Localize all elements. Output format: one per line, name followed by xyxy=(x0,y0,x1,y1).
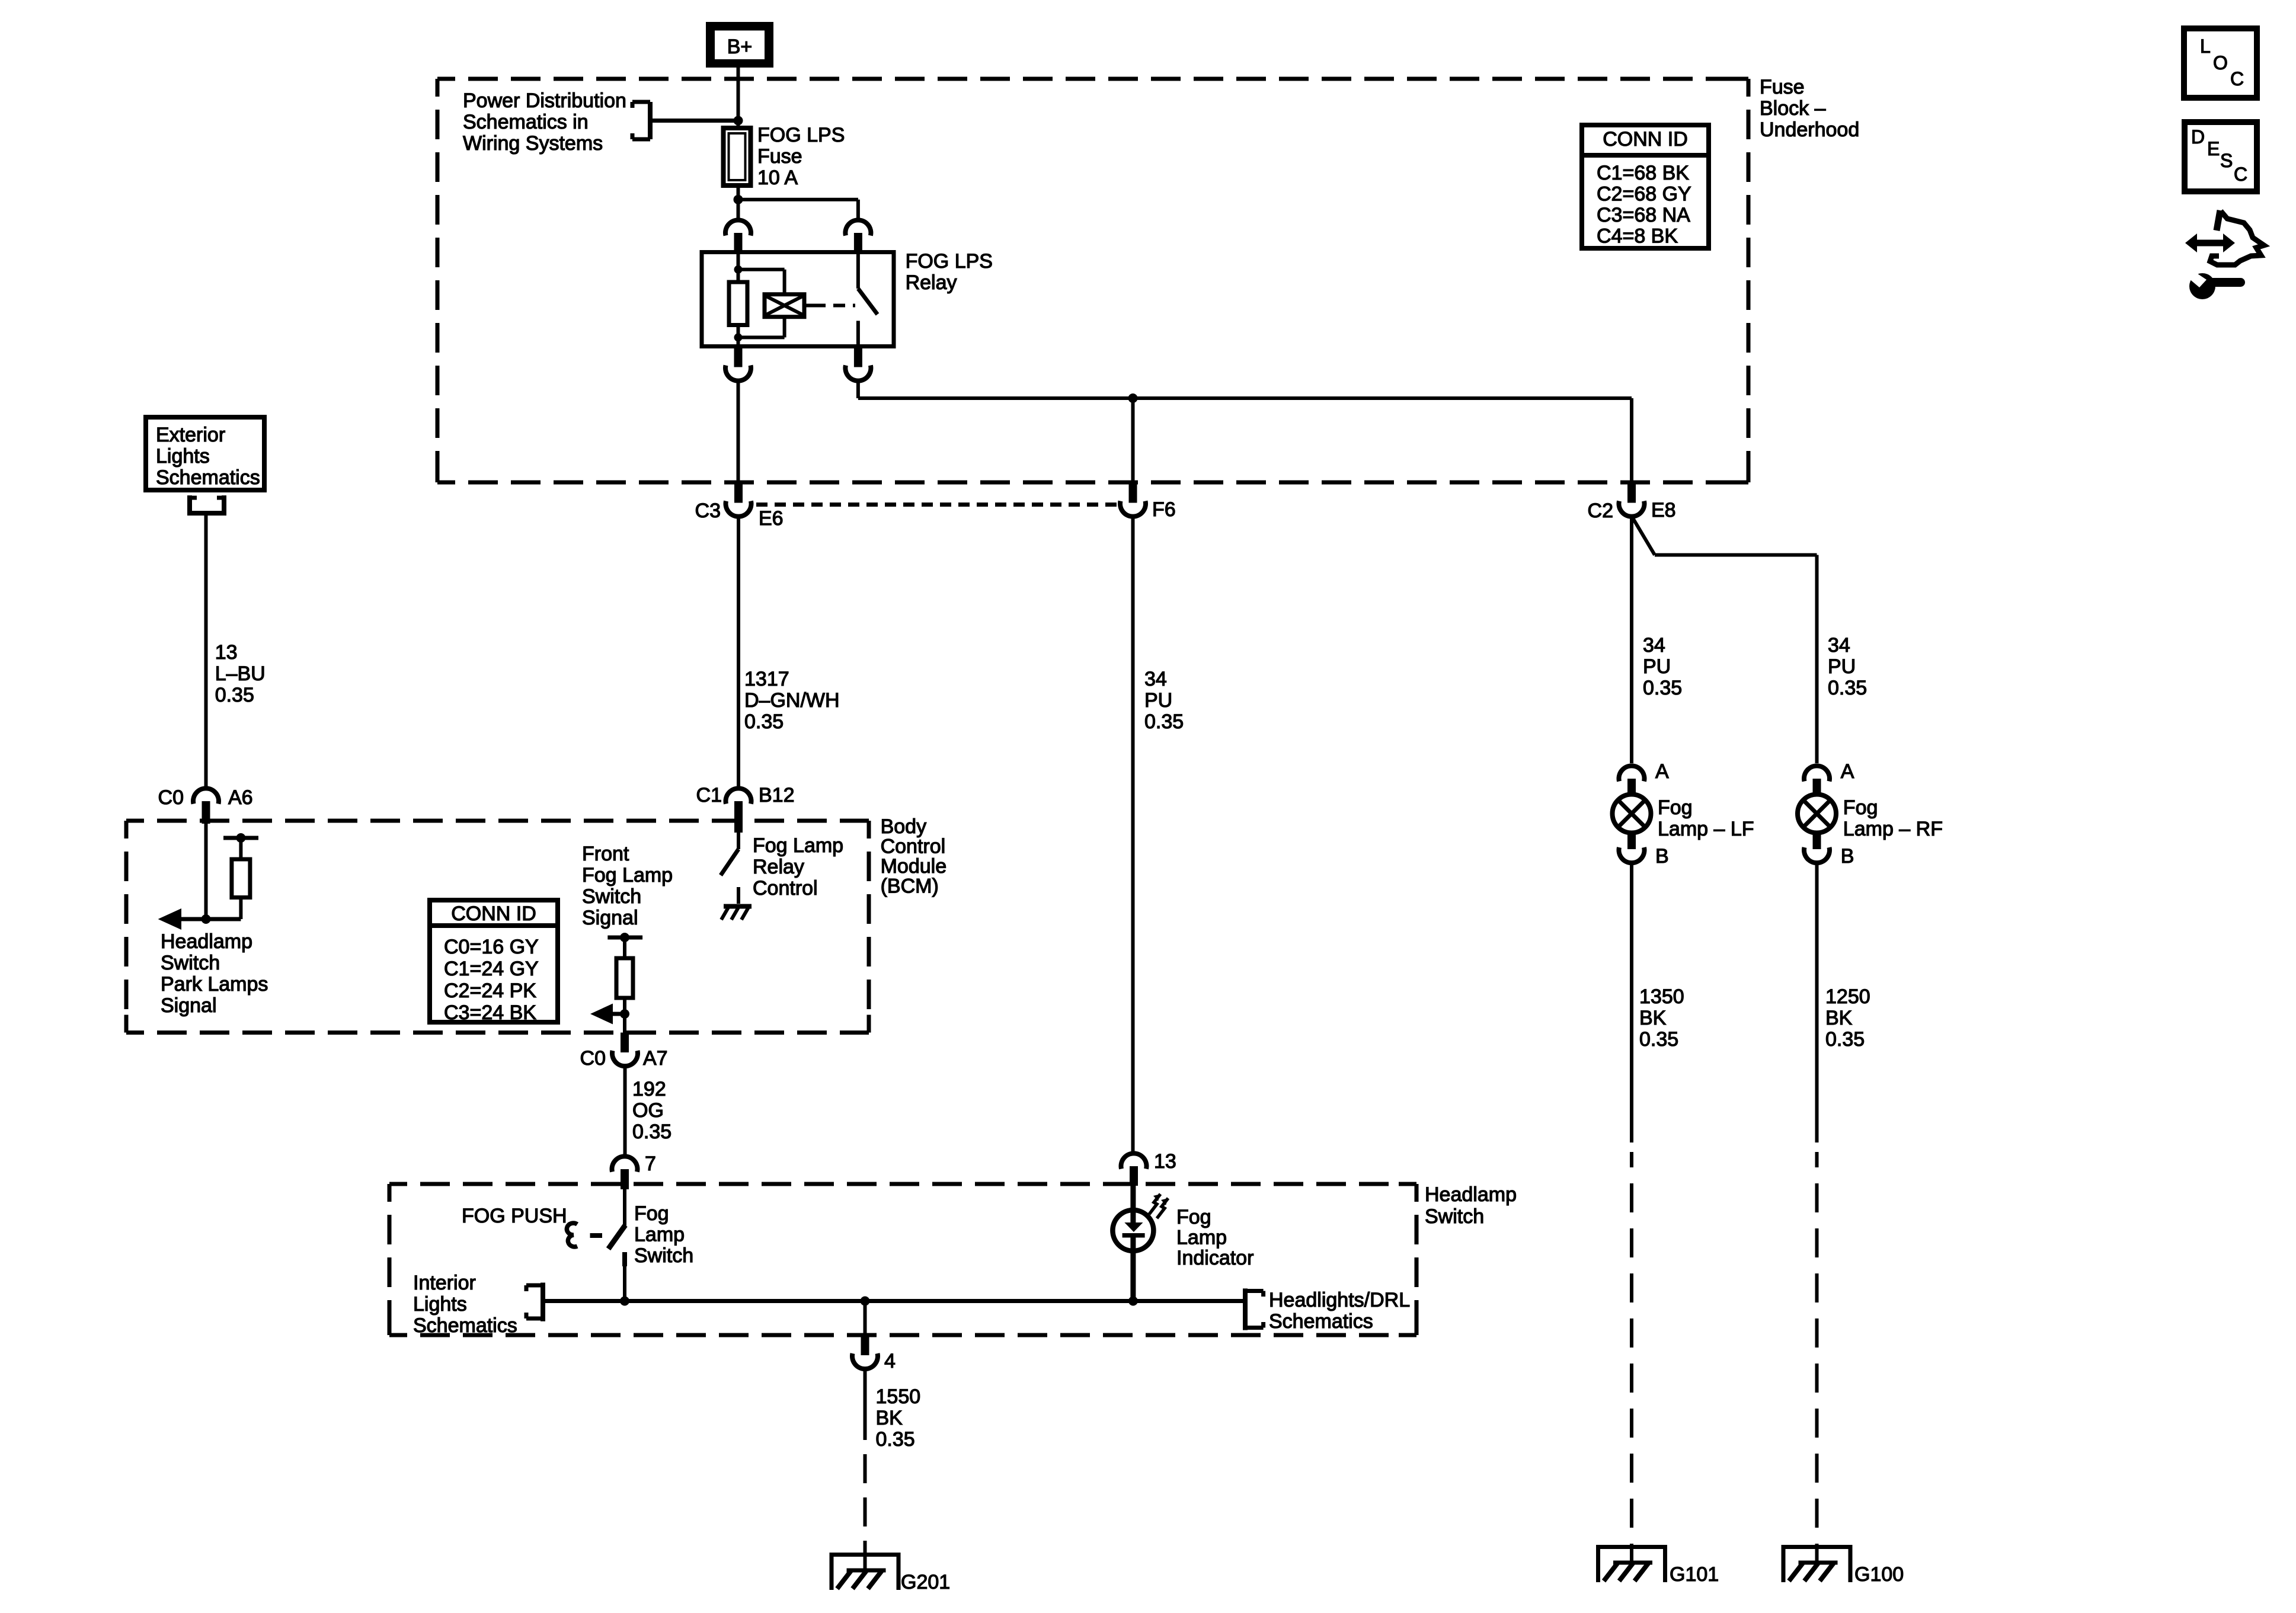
svg-text:Fog: Fog xyxy=(1176,1206,1211,1228)
svg-text:0.35: 0.35 xyxy=(1639,1028,1678,1051)
svg-text:S: S xyxy=(2220,150,2233,171)
svg-text:A: A xyxy=(1841,760,1854,783)
svg-text:Park Lamps: Park Lamps xyxy=(161,973,268,996)
svg-text:PU: PU xyxy=(1643,655,1671,678)
svg-text:0.35: 0.35 xyxy=(1643,677,1682,699)
svg-text:Schematics in: Schematics in xyxy=(463,111,589,133)
svg-text:Lights: Lights xyxy=(413,1293,467,1316)
svg-text:Block –: Block – xyxy=(1760,97,1826,120)
svg-text:Wiring Systems: Wiring Systems xyxy=(463,132,603,155)
svg-text:Signal: Signal xyxy=(161,994,217,1017)
svg-text:Switch: Switch xyxy=(1425,1205,1484,1228)
svg-text:Front: Front xyxy=(582,843,629,865)
svg-text:C3=68 NA: C3=68 NA xyxy=(1597,204,1690,226)
svg-text:Fog: Fog xyxy=(634,1202,669,1225)
svg-text:C1=24 GY: C1=24 GY xyxy=(444,958,539,980)
svg-text:B: B xyxy=(1655,845,1669,868)
svg-text:0.35: 0.35 xyxy=(876,1428,915,1451)
svg-text:C2=68 GY: C2=68 GY xyxy=(1597,183,1691,206)
svg-text:Switch: Switch xyxy=(634,1244,693,1267)
svg-text:L: L xyxy=(2200,36,2211,57)
svg-text:D: D xyxy=(2191,126,2205,148)
svg-text:Fog: Fog xyxy=(1658,796,1693,819)
svg-text:Underhood: Underhood xyxy=(1760,119,1859,141)
svg-text:Headlamp: Headlamp xyxy=(161,930,252,953)
svg-text:Headlights/DRL: Headlights/DRL xyxy=(1269,1289,1410,1311)
svg-text:CONN ID: CONN ID xyxy=(1603,128,1688,151)
svg-text:FOG LPS: FOG LPS xyxy=(906,250,993,273)
svg-text:192: 192 xyxy=(632,1078,666,1100)
svg-text:34: 34 xyxy=(1643,634,1665,657)
svg-text:C1: C1 xyxy=(696,784,722,806)
svg-text:G101: G101 xyxy=(1670,1563,1719,1586)
svg-text:C0: C0 xyxy=(580,1047,606,1070)
svg-text:Control: Control xyxy=(881,836,946,858)
svg-text:Lamp: Lamp xyxy=(634,1224,685,1246)
svg-text:B+: B+ xyxy=(727,36,753,58)
svg-text:Fuse: Fuse xyxy=(1760,76,1805,98)
svg-text:Fuse: Fuse xyxy=(757,145,802,168)
svg-text:A7: A7 xyxy=(643,1047,668,1070)
svg-text:G100: G100 xyxy=(1854,1563,1904,1586)
svg-text:C4=8 BK: C4=8 BK xyxy=(1597,225,1678,248)
svg-text:B: B xyxy=(1841,845,1854,868)
svg-text:Switch: Switch xyxy=(582,885,641,908)
svg-text:0.35: 0.35 xyxy=(1144,711,1184,733)
svg-text:C0: C0 xyxy=(158,786,184,809)
svg-text:Schematics: Schematics xyxy=(1269,1310,1373,1333)
svg-text:A6: A6 xyxy=(228,786,253,809)
svg-text:BK: BK xyxy=(1825,1007,1853,1029)
svg-text:10 A: 10 A xyxy=(757,167,798,189)
svg-text:34: 34 xyxy=(1144,668,1167,690)
svg-text:Fog Lamp: Fog Lamp xyxy=(582,864,673,886)
svg-text:Lamp: Lamp xyxy=(1176,1227,1227,1249)
svg-text:CONN ID: CONN ID xyxy=(451,902,536,925)
svg-text:Exterior: Exterior xyxy=(156,424,225,446)
svg-text:Signal: Signal xyxy=(582,907,638,929)
svg-text:Power Distribution: Power Distribution xyxy=(463,89,626,112)
svg-text:Schematics: Schematics xyxy=(413,1314,517,1337)
svg-text:Interior: Interior xyxy=(413,1272,476,1294)
svg-text:13: 13 xyxy=(1154,1150,1176,1173)
svg-text:E: E xyxy=(2207,138,2220,159)
svg-text:BK: BK xyxy=(876,1407,903,1429)
svg-text:0.35: 0.35 xyxy=(744,711,784,733)
svg-text:FOG LPS: FOG LPS xyxy=(757,124,845,146)
svg-text:C0=16 GY: C0=16 GY xyxy=(444,936,539,958)
svg-text:L–BU: L–BU xyxy=(215,663,266,685)
svg-text:C: C xyxy=(2234,164,2247,185)
svg-text:PU: PU xyxy=(1828,655,1856,678)
svg-text:BK: BK xyxy=(1639,1007,1667,1029)
svg-text:G201: G201 xyxy=(901,1571,950,1593)
svg-text:Lamp – RF: Lamp – RF xyxy=(1843,818,1943,840)
svg-text:C3: C3 xyxy=(695,500,721,522)
svg-text:13: 13 xyxy=(215,641,238,664)
svg-text:D–GN/WH: D–GN/WH xyxy=(744,689,840,712)
svg-text:E6: E6 xyxy=(759,507,784,530)
svg-text:Indicator: Indicator xyxy=(1176,1247,1253,1269)
svg-text:1550: 1550 xyxy=(876,1385,921,1408)
svg-text:Headlamp: Headlamp xyxy=(1425,1183,1517,1206)
svg-text:Schematics: Schematics xyxy=(156,466,260,489)
svg-text:Fog Lamp: Fog Lamp xyxy=(753,834,843,857)
svg-text:Fog: Fog xyxy=(1843,796,1878,819)
svg-text:0.35: 0.35 xyxy=(1825,1028,1865,1051)
svg-text:C3=24 BK: C3=24 BK xyxy=(444,1001,536,1024)
svg-text:Body: Body xyxy=(881,815,927,838)
svg-text:Relay: Relay xyxy=(753,856,804,878)
svg-text:FOG PUSH: FOG PUSH xyxy=(462,1205,567,1227)
svg-text:O: O xyxy=(2213,52,2228,73)
svg-text:34: 34 xyxy=(1828,634,1850,657)
svg-text:PU: PU xyxy=(1144,689,1172,712)
svg-text:1350: 1350 xyxy=(1639,985,1684,1008)
svg-text:A: A xyxy=(1655,760,1669,783)
svg-text:C2=24 PK: C2=24 PK xyxy=(444,980,536,1002)
svg-text:1250: 1250 xyxy=(1825,985,1870,1008)
svg-text:0.35: 0.35 xyxy=(1828,677,1867,699)
svg-text:1317: 1317 xyxy=(744,668,789,690)
svg-text:7: 7 xyxy=(645,1153,656,1175)
svg-text:F6: F6 xyxy=(1152,498,1176,521)
svg-text:0.35: 0.35 xyxy=(215,684,254,706)
svg-text:B12: B12 xyxy=(759,784,795,806)
svg-text:4: 4 xyxy=(884,1350,896,1372)
svg-text:OG: OG xyxy=(632,1099,664,1122)
svg-text:E8: E8 xyxy=(1651,499,1676,521)
svg-text:C2: C2 xyxy=(1588,500,1613,522)
svg-text:C: C xyxy=(2230,68,2244,89)
svg-text:(BCM): (BCM) xyxy=(881,875,939,898)
svg-text:Lamp – LF: Lamp – LF xyxy=(1658,818,1754,840)
svg-text:Control: Control xyxy=(753,877,818,900)
svg-text:Module: Module xyxy=(881,855,947,878)
svg-text:C1=68 BK: C1=68 BK xyxy=(1597,162,1689,184)
svg-text:Lights: Lights xyxy=(156,445,210,468)
svg-text:0.35: 0.35 xyxy=(632,1121,671,1143)
svg-text:Relay: Relay xyxy=(906,271,957,294)
svg-text:Switch: Switch xyxy=(161,952,220,974)
